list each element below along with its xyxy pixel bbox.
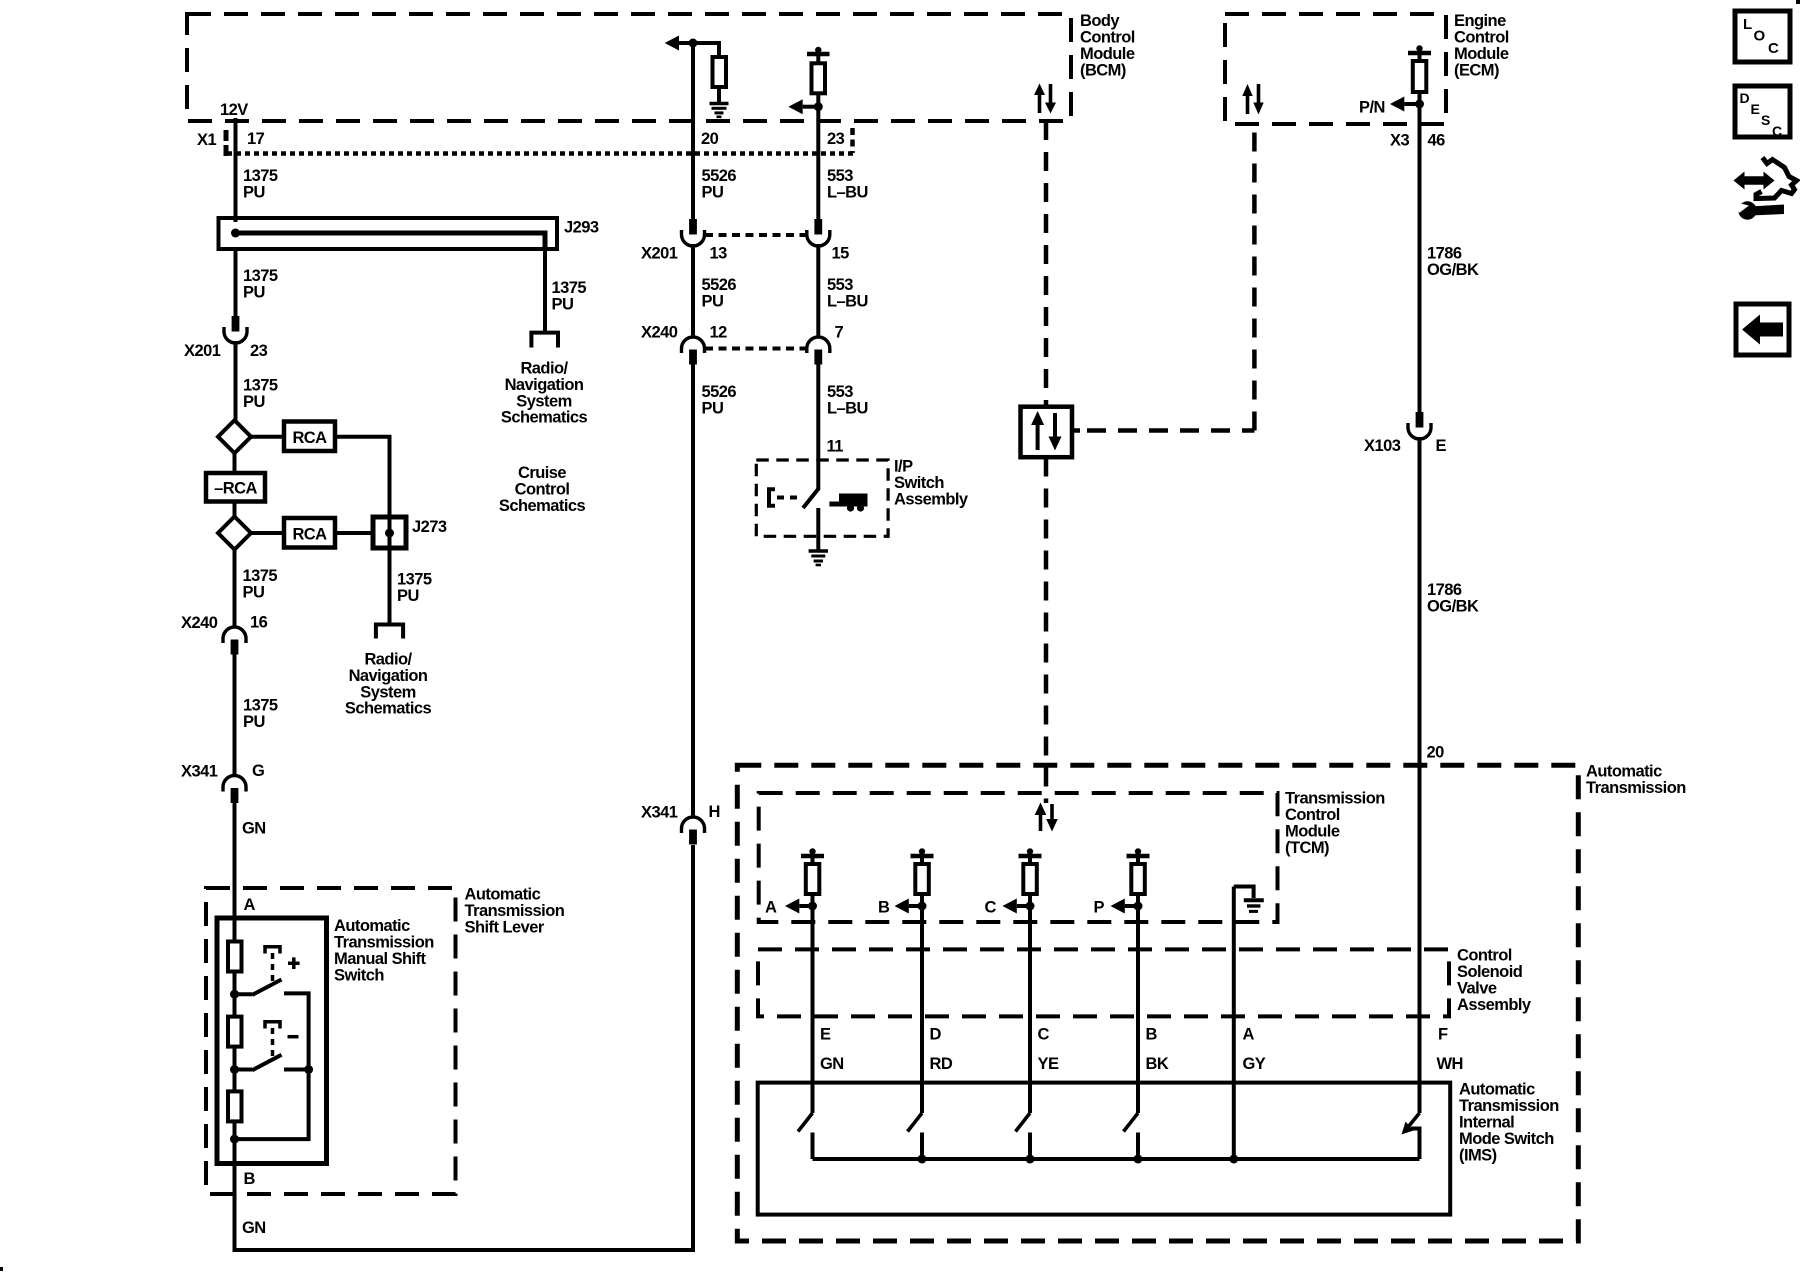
ECM internal T-bar and resistor (wire 1786)	[1416, 45, 1422, 51]
svg-text:A: A	[765, 899, 777, 917]
svg-text:A: A	[244, 896, 256, 914]
svg-text:13: 13	[710, 245, 728, 263]
svg-text:PU: PU	[702, 293, 724, 311]
svg-text:23: 23	[827, 130, 845, 148]
svg-text:1375: 1375	[243, 697, 278, 715]
icon LOC button	[1735, 11, 1790, 62]
svg-text:L: L	[1743, 16, 1752, 33]
wire diamond to RCA box	[251, 435, 284, 439]
svg-text:Module: Module	[1080, 45, 1135, 63]
arrow P/N into module	[1390, 97, 1404, 112]
svg-text:1375: 1375	[243, 567, 278, 585]
svg-text:X3: X3	[1390, 132, 1409, 150]
switch blade (downshift)	[235, 1068, 253, 1072]
junction dot on rail	[304, 1065, 313, 1074]
svg-text:X240: X240	[641, 324, 678, 342]
svg-text:Automatic: Automatic	[1459, 1081, 1535, 1099]
ECM serial data arrows (up/down)	[1242, 84, 1263, 115]
svg-text:J273: J273	[412, 518, 447, 536]
svg-text:D: D	[930, 1026, 942, 1044]
svg-text:Switch: Switch	[894, 474, 944, 492]
wire 1375 PU X240 to X341 pin G	[233, 653, 237, 776]
svg-text:X201: X201	[641, 245, 678, 263]
svg-text:Schematics: Schematics	[499, 497, 586, 515]
wire circuit 1375 PU from BCM X1 pin 17 down to J293	[234, 118, 238, 222]
TCM serial data arrows (up/down)	[1035, 803, 1058, 832]
wire 1375 PU X201 to diamond splice	[234, 341, 238, 422]
RCA box lower	[284, 518, 335, 548]
svg-text:BK: BK	[1146, 1055, 1169, 1073]
connector X341 pin H (arch)	[682, 817, 705, 833]
wire 5526 PU from BCM junction down to pin 20	[691, 43, 695, 220]
component box I/P Switch Assembly	[756, 460, 888, 536]
dashed connector link X201	[705, 233, 806, 237]
svg-text:O: O	[1754, 28, 1766, 45]
splice J293 bus bar	[236, 233, 546, 249]
svg-text:1375: 1375	[243, 167, 278, 185]
svg-text:Radio/: Radio/	[364, 651, 412, 669]
svg-text:Navigation: Navigation	[505, 376, 584, 394]
svg-text:A: A	[1243, 1026, 1255, 1044]
module box Automatic Transmission Shift Lever	[206, 888, 456, 1194]
svg-text:1375: 1375	[243, 377, 278, 395]
IMS common A junction	[1229, 1155, 1238, 1164]
svg-text:Automatic: Automatic	[465, 886, 541, 904]
icon back arrow button	[1736, 304, 1789, 355]
svg-text:PU: PU	[397, 587, 419, 605]
svg-text:X201: X201	[184, 342, 221, 360]
diamond splice lower	[218, 517, 251, 550]
svg-text:Navigation: Navigation	[349, 667, 428, 685]
svg-text:(BCM): (BCM)	[1080, 62, 1126, 80]
svg-text:PU: PU	[243, 284, 265, 302]
svg-text:C: C	[1038, 1026, 1050, 1044]
RCA box upper	[284, 422, 335, 452]
svg-text:Module: Module	[1285, 823, 1340, 841]
svg-text:Transmission: Transmission	[1459, 1097, 1559, 1115]
svg-text:(IMS): (IMS)	[1459, 1147, 1497, 1165]
svg-text:I/P: I/P	[894, 458, 913, 476]
wire J293 right branch 1375 PU down to radio terminator	[543, 249, 547, 331]
switch fixed contact (upshift)	[284, 991, 311, 995]
junction node (upshift)	[230, 990, 239, 999]
icon DESC button	[1735, 86, 1790, 137]
diamond splice upper	[218, 420, 251, 453]
wire J273 down to radio terminator	[388, 548, 392, 623]
svg-text:Switch: Switch	[334, 967, 384, 985]
wire below I/P switch to ground	[816, 508, 820, 550]
wire 1375 PU diamond lower to X240 pin 16	[233, 550, 237, 629]
connector X240 pin 16 (arch)	[223, 627, 246, 643]
svg-text:G: G	[252, 762, 264, 780]
wire 553 L-BU X240 down to I/P switch	[816, 364, 820, 489]
connector X103 pin E (cup)	[1416, 412, 1424, 428]
svg-text:PU: PU	[552, 296, 574, 314]
IMS switch D	[920, 1084, 924, 1113]
svg-text:Engine: Engine	[1454, 12, 1506, 30]
svg-text:Transmission: Transmission	[1285, 790, 1385, 808]
svg-text:20: 20	[701, 130, 719, 148]
svg-text:GY: GY	[1243, 1055, 1266, 1073]
svg-text:20: 20	[1427, 744, 1445, 762]
wire GN X341 to shift lever pin A	[233, 802, 237, 921]
svg-text:1375: 1375	[552, 279, 587, 297]
svg-text:B: B	[1146, 1026, 1158, 1044]
svg-text:Body: Body	[1080, 12, 1120, 30]
wire 5526 PU X240 down to X341 pin H	[691, 364, 695, 818]
rail wire from upshift contact to bottom node	[235, 993, 309, 1139]
svg-text:Solenoid: Solenoid	[1457, 963, 1522, 981]
svg-text:X1: X1	[197, 131, 216, 149]
svg-text:Automatic: Automatic	[334, 917, 410, 935]
junction dot at BCM pin 23 branch	[814, 102, 823, 111]
svg-text:553: 553	[827, 276, 853, 294]
wire BK solenoid B column	[1136, 906, 1140, 1084]
svg-text:11: 11	[827, 438, 844, 456]
icon vehicle (I/P switch)	[829, 494, 867, 507]
junction dot on wire1 in J293	[231, 229, 240, 238]
svg-text:1786: 1786	[1427, 581, 1462, 599]
svg-text:System: System	[360, 683, 415, 701]
svg-text:Assembly: Assembly	[1457, 996, 1532, 1014]
serial data gateway box	[1021, 407, 1073, 458]
svg-text:PU: PU	[243, 393, 265, 411]
svg-text:E: E	[820, 1026, 831, 1044]
wire 1375 PU J293 to connector X201 pin 23	[234, 249, 238, 319]
connector X201 pin 13 (cup, wire 5526)	[689, 219, 697, 235]
svg-text:Internal: Internal	[1459, 1114, 1514, 1132]
svg-text:OG/BK: OG/BK	[1427, 261, 1479, 279]
resistor (BCM, wire 553)	[812, 63, 826, 93]
svg-text:Control: Control	[1285, 806, 1340, 824]
junction dot in J273	[385, 529, 394, 538]
svg-text:12: 12	[710, 324, 728, 342]
dashed serial data line BCM to gateway box	[1044, 121, 1049, 406]
svg-text:GN: GN	[242, 1219, 266, 1237]
wire GN bottom route to X341 pin H	[235, 845, 694, 1250]
svg-text:PU: PU	[243, 584, 265, 602]
svg-text:F: F	[1438, 1026, 1448, 1044]
IMS common bus wire	[813, 1157, 1420, 1161]
connector X240 pin 12 (arch, wire 5526)	[682, 337, 705, 353]
svg-text:16: 16	[250, 614, 268, 632]
svg-text:Mode Switch: Mode Switch	[1459, 1130, 1554, 1148]
svg-text:Module: Module	[1454, 45, 1509, 63]
svg-text:Valve: Valve	[1457, 980, 1497, 998]
dashed serial data line gateway to TCM	[1044, 458, 1049, 804]
svg-text:PU: PU	[702, 184, 724, 202]
gateway arrows (up/down)	[1031, 411, 1061, 451]
wire YE solenoid C column	[1028, 906, 1032, 1084]
TCM resistor column P (solenoid B)	[1111, 848, 1150, 913]
wire RCA lower to J273	[335, 531, 373, 535]
junction dot at BCM pin 20 branch	[689, 39, 698, 48]
svg-text:1786: 1786	[1427, 245, 1462, 263]
component box IMS (Automatic Transmission Internal Mode Switch)	[758, 1083, 1450, 1215]
wire GY common A column	[1232, 887, 1236, 1160]
TCM resistor column B (solenoid D)	[895, 848, 934, 913]
svg-text:S: S	[1761, 112, 1770, 128]
svg-text:C: C	[1768, 40, 1779, 57]
module box TCM (Transmission Control Module)	[759, 793, 1278, 922]
svg-text:5526: 5526	[702, 276, 737, 294]
module box BCM (Body Control Module)	[187, 14, 1071, 121]
svg-text:Transmission: Transmission	[334, 934, 434, 952]
svg-text:5526: 5526	[702, 383, 737, 401]
svg-text:C: C	[1772, 123, 1782, 139]
svg-text:1375: 1375	[397, 571, 432, 589]
dashed connector link X240	[705, 347, 806, 351]
svg-text:(TCM): (TCM)	[1285, 839, 1329, 857]
switch blade (I/P cruise switch)	[803, 488, 819, 508]
svg-text:PU: PU	[702, 400, 724, 418]
module box Automatic Transmission	[737, 765, 1578, 1241]
wire 5526 PU X201 to X240	[691, 244, 695, 338]
wire through J273	[388, 517, 392, 548]
svg-text:Cruise: Cruise	[518, 464, 566, 482]
TCM resistor column A (solenoid E)	[785, 848, 824, 913]
svg-text:L–BU: L–BU	[827, 400, 868, 418]
arrow into module (wire 553)	[788, 99, 802, 114]
switch blade (upshift)	[235, 992, 253, 996]
ground (I/P switch assembly)	[809, 549, 828, 553]
resistor R3 (shift switch)	[233, 1070, 237, 1091]
resistor (ECM P/N)	[1413, 61, 1427, 92]
svg-text:YE: YE	[1038, 1055, 1059, 1073]
wire to pin B	[233, 1139, 237, 1252]
svg-text:Assembly: Assembly	[894, 491, 969, 509]
BCM internal: T-bar and resistor (wire 553)	[815, 47, 821, 53]
wire RCA box to J273 drop	[335, 437, 390, 517]
svg-text:B: B	[878, 899, 890, 917]
terminator to Radio/Navigation (J273 branch)	[376, 625, 403, 639]
svg-text:B: B	[244, 1170, 256, 1188]
svg-text:Automatic: Automatic	[1586, 763, 1662, 781]
wire 553 L-BU X201 to X240	[816, 244, 820, 338]
switch fixed contact (downshift) + rail	[284, 1068, 309, 1072]
connector X341 pin G (arch)	[223, 776, 246, 792]
svg-text:GN: GN	[820, 1055, 844, 1073]
IMS switch B	[1136, 1084, 1140, 1113]
svg-text:7: 7	[835, 324, 844, 342]
svg-text:X341: X341	[181, 762, 218, 780]
switch + (upshift) actuator dashed	[265, 947, 280, 954]
svg-text:E: E	[1436, 437, 1447, 455]
svg-text:1375: 1375	[243, 267, 278, 285]
svg-text:OG/BK: OG/BK	[1427, 598, 1479, 616]
svg-text:553: 553	[827, 167, 853, 185]
wire 1786 OG/BK X103 down to transmission	[1418, 437, 1422, 1084]
svg-text:Control: Control	[1457, 947, 1512, 965]
svg-text:H: H	[709, 803, 720, 821]
svg-text:(ECM): (ECM)	[1454, 62, 1499, 80]
svg-text:J293: J293	[564, 219, 599, 237]
svg-text:5526: 5526	[702, 167, 737, 185]
component box Automatic Transmission Manual Shift Switch	[217, 918, 327, 1164]
svg-text:L–BU: L–BU	[827, 293, 868, 311]
svg-text:System: System	[516, 392, 571, 410]
svg-text:Transmission: Transmission	[1586, 779, 1686, 797]
ground (BCM internal)	[710, 102, 729, 106]
svg-text:Manual Shift: Manual Shift	[334, 950, 427, 968]
switch - (downshift) actuator dashed	[265, 1022, 280, 1029]
junction node bottom	[230, 1135, 239, 1144]
junction dot P/N	[1415, 100, 1424, 109]
terminator to Radio/Navigation (J293 branch)	[531, 333, 558, 348]
icon diagnostic (arrows, connector outline, wrench)	[1734, 158, 1797, 220]
svg-text:Control: Control	[1080, 29, 1135, 47]
wire RD solenoid D column	[920, 906, 924, 1084]
page edge artifact top-right	[1796, 0, 1800, 4]
svg-text:15: 15	[832, 245, 850, 263]
svg-text:X240: X240	[181, 614, 218, 632]
connector X201 pin 23 (cup)	[232, 316, 240, 332]
svg-text:C: C	[985, 899, 997, 917]
svg-text:X103: X103	[1364, 437, 1401, 455]
svg-text:RCA: RCA	[292, 429, 327, 447]
BCM serial data arrows (up/down)	[1034, 84, 1056, 114]
connector X240 pin 7 (arch, wire 553)	[807, 337, 830, 353]
svg-text:X341: X341	[641, 804, 678, 822]
switch actuator bracket	[769, 489, 775, 506]
svg-text:Radio/: Radio/	[520, 360, 568, 378]
ground (TCM)	[1244, 898, 1264, 902]
svg-text:RD: RD	[930, 1055, 953, 1073]
page edge artifact bottom-left	[0, 1267, 3, 1271]
svg-text:12V: 12V	[220, 101, 248, 119]
svg-text:L–BU: L–BU	[827, 184, 868, 202]
svg-text:Shift Lever: Shift Lever	[465, 919, 545, 937]
svg-text:WH: WH	[1437, 1055, 1463, 1073]
svg-text:D: D	[1740, 90, 1750, 106]
svg-text:E: E	[1751, 101, 1760, 117]
IMS switch F (wiper with arrow)	[1418, 1084, 1422, 1113]
connector X1 stub dashes	[224, 130, 229, 156]
wire GN solenoid E column	[811, 906, 815, 1084]
svg-text:Schematics: Schematics	[501, 409, 588, 427]
label +	[288, 957, 300, 969]
svg-text:GN: GN	[242, 820, 266, 838]
BCM internal: arrow into module (wire 5526)	[665, 36, 679, 51]
svg-text:17: 17	[247, 130, 265, 148]
resistor R2 (shift switch)	[233, 996, 237, 1017]
svg-text:P: P	[1094, 899, 1105, 917]
svg-text:Control: Control	[515, 481, 570, 499]
module box Control Solenoid Valve Assembly	[758, 949, 1449, 1016]
svg-text:PU: PU	[243, 184, 265, 202]
label -	[288, 1035, 299, 1039]
TCM resistor column C (solenoid C)	[1003, 848, 1042, 913]
svg-text:RCA: RCA	[292, 526, 327, 544]
svg-text:23: 23	[250, 342, 268, 360]
module box ECM (Engine Control Module)	[1225, 14, 1446, 124]
TCM internal ground hook (solenoid A common)	[1234, 887, 1254, 899]
junction node (downshift)	[230, 1065, 239, 1074]
-RCA box	[206, 473, 265, 502]
dashed serial data line gateway to ECM	[1072, 428, 1080, 433]
connector X1 right end dotted stub	[850, 128, 855, 153]
svg-text:P/N: P/N	[1359, 99, 1385, 117]
svg-text:Control: Control	[1454, 29, 1509, 47]
wire diamond to RCA box lower	[251, 531, 284, 535]
IMS switch C	[1028, 1084, 1032, 1113]
svg-text:–RCA: –RCA	[214, 480, 257, 498]
connector X201 pin 15 (cup, wire 553)	[814, 219, 822, 235]
splice J293 box	[219, 218, 558, 249]
svg-text:PU: PU	[243, 713, 265, 731]
resistor (BCM pulldown, wire 5526)	[713, 57, 727, 87]
wire diamond to -RCA box	[233, 453, 237, 473]
wire 1786 OG/BK from ECM X3 pin 46 down to X103	[1418, 124, 1422, 413]
wire 553 L-BU from BCM down to pin 23	[816, 107, 820, 220]
svg-text:Schematics: Schematics	[345, 700, 432, 718]
splice J273 box	[373, 517, 406, 548]
resistor R1 (shift switch)	[233, 918, 237, 942]
svg-text:553: 553	[827, 383, 853, 401]
svg-text:46: 46	[1428, 132, 1446, 150]
svg-text:Transmission: Transmission	[465, 902, 565, 920]
IMS switch E	[811, 1084, 815, 1113]
connector X1 face dotted line	[227, 151, 853, 156]
wire -RCA to diamond lower	[233, 502, 237, 518]
